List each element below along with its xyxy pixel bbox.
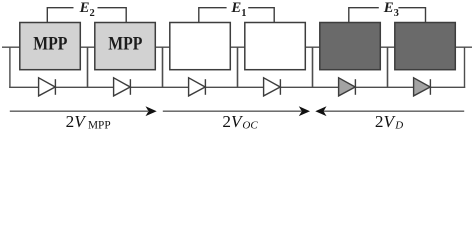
label 2V_OC	[222, 112, 258, 131]
wire: left end drop to diode bus	[9, 47, 11, 88]
PV module 5 (bypassed, shaded dark)	[320, 23, 381, 70]
bypass diode D3	[189, 78, 206, 96]
svg-text:2V: 2V	[375, 112, 397, 131]
wire: drop between module 4 and 5	[312, 47, 314, 88]
svg-text:MPP: MPP	[88, 119, 111, 131]
PV module 4 (open-circuit, white)	[245, 23, 305, 70]
svg-text:MPP: MPP	[108, 35, 142, 55]
dimension arrow 2V_MPP (points right)	[10, 106, 157, 116]
PV module 2 (MPP, shaded light)	[95, 23, 156, 70]
label MPP on module 1	[33, 35, 67, 55]
bypass diode D2	[114, 78, 131, 96]
svg-text:OC: OC	[242, 119, 258, 131]
wire: drop between module 2 and 3	[162, 47, 164, 88]
bracket for group E3 over modules 5-6	[349, 1, 426, 23]
bypass diode D5 (conducting, shaded)	[339, 78, 356, 96]
bracket for group E2 over modules 1-2	[47, 1, 126, 23]
svg-text:MPP: MPP	[33, 35, 67, 55]
svg-text:2V: 2V	[66, 112, 88, 131]
wire: right end drop to diode bus	[464, 47, 466, 88]
wire: drop between module 3 and 4	[237, 47, 239, 88]
bypass diode D4	[264, 78, 281, 96]
svg-text:D: D	[394, 119, 403, 131]
PV module 1 (MPP, shaded light)	[20, 23, 81, 70]
dimension arrow 2V_D (points left)	[315, 106, 464, 116]
wire: main series string conductor	[2, 46, 472, 48]
bypass diode D1	[39, 78, 56, 96]
label E1	[230, 0, 246, 19]
label 2V_MPP	[66, 112, 111, 131]
label 2V_D	[375, 112, 403, 131]
label E3	[383, 0, 399, 19]
bracket for group E1 over modules 3-4	[199, 1, 274, 23]
svg-text:2V: 2V	[222, 112, 244, 131]
PV module 6 (bypassed, shaded dark)	[395, 23, 456, 70]
PV module 3 (open-circuit, white)	[170, 23, 231, 70]
wire: drop between module 1 and 2	[87, 47, 89, 88]
dimension arrow 2V_OC (points right)	[163, 106, 310, 116]
wire: drop between module 5 and 6	[387, 47, 389, 88]
wire: bypass diode bus	[9, 86, 465, 88]
bypass diode D6 (conducting, shaded)	[414, 78, 431, 96]
label MPP on module 2	[108, 35, 142, 55]
label E2	[79, 0, 95, 19]
